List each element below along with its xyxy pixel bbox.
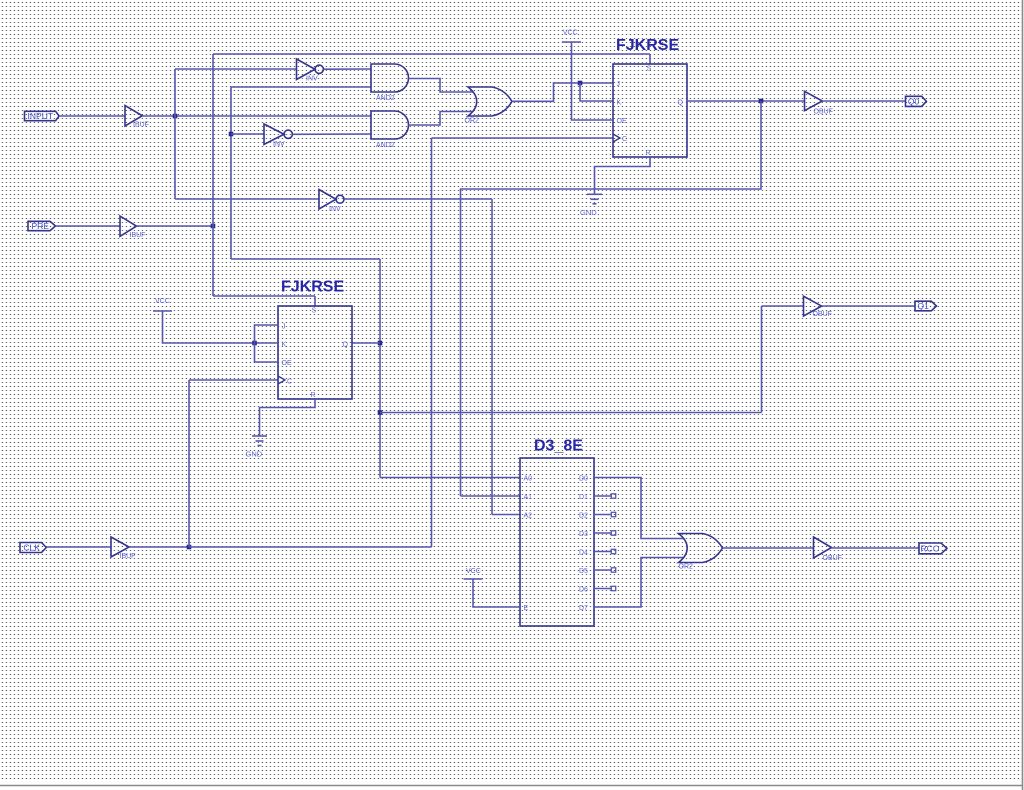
wire A1 input	[461, 495, 521, 497]
svg-text:INV: INV	[273, 141, 285, 148]
wire CLK to C2 pin	[189, 379, 278, 381]
node junction PRE net	[211, 224, 216, 229]
wire INV2 out to AND2 input	[293, 133, 371, 135]
wire PRE net to FJKRSE1 S	[213, 53, 650, 55]
svg-text:J: J	[617, 81, 621, 88]
svg-text:OE: OE	[282, 360, 292, 367]
svg-text:Q: Q	[343, 342, 349, 349]
window border bottom	[0, 785, 1022, 787]
wire INV3 net vertical x492	[491, 199, 493, 515]
pin stub D1 unconnected	[594, 495, 611, 497]
wire R2 to ground	[260, 399, 316, 436]
svg-text:CLK: CLK	[23, 543, 40, 553]
wire feedback vertical x231	[230, 87, 232, 259]
svg-text:FJKRSE: FJKRSE	[281, 278, 344, 295]
power VCC for FJKRSE2	[153, 310, 172, 312]
wire feedback to INV2 input	[231, 133, 264, 135]
wire INV3 out	[344, 198, 492, 200]
svg-text:R: R	[311, 392, 316, 399]
wire Q0 feedback	[461, 101, 762, 496]
input terminal CLK	[20, 543, 46, 553]
node junction CLK net	[187, 545, 192, 550]
svg-text:D6: D6	[579, 587, 588, 594]
svg-text:D2: D2	[579, 513, 588, 520]
wire OR1 out to J1/K1	[512, 83, 613, 101]
svg-text:INPUT: INPUT	[28, 111, 54, 121]
wire OBUF to Q1 terminal	[822, 305, 915, 307]
wire CLK vertical to FJKRSE1 C	[431, 138, 433, 547]
wire IBUF out to junction PRE	[137, 225, 214, 227]
wire INV1 out to AND1 input	[324, 68, 371, 70]
svg-text:D3: D3	[579, 531, 588, 538]
wire PRE to IBUF	[56, 225, 121, 227]
wire QT vertical to OBUF	[761, 306, 763, 413]
svg-text:D5: D5	[579, 568, 588, 575]
svg-text:OR2: OR2	[465, 117, 480, 124]
svg-text:D3_8E: D3_8E	[534, 438, 583, 455]
pin stub D3 unconnected	[594, 532, 611, 534]
svg-text:RCO: RCO	[921, 543, 940, 553]
svg-text:OBUF: OBUF	[823, 555, 842, 562]
pin stub D2 unconnected	[594, 514, 611, 516]
svg-text:GND: GND	[580, 208, 597, 217]
svg-text:Q: Q	[678, 100, 684, 107]
svg-text:K: K	[617, 100, 622, 107]
wire IBUF out to CLK junction	[129, 546, 189, 548]
svg-text:IBUF: IBUF	[130, 232, 146, 239]
wire R1 to ground	[595, 157, 651, 194]
svg-text:PRE: PRE	[32, 221, 50, 231]
node junction J2 K2 OE2	[252, 341, 257, 346]
wire AND1 out to OR	[409, 79, 474, 93]
wire feedback horizontal y259	[231, 258, 380, 260]
wire QT horizontal y412	[380, 412, 762, 414]
svg-text:A1: A1	[524, 494, 533, 501]
buffer OBUF (Q1)	[804, 296, 822, 316]
wire PRE net to FJKRSE2 S	[213, 295, 315, 297]
gate AND2 upper	[371, 64, 409, 92]
svg-text:D4: D4	[579, 550, 588, 557]
output terminal Q1	[915, 301, 937, 311]
node junction J1K1	[578, 81, 583, 86]
node junction INPUT net	[173, 114, 178, 119]
pin stub D6 unconnected	[594, 588, 611, 590]
svg-text:D1: D1	[579, 494, 588, 501]
svg-text:OR2: OR2	[679, 564, 694, 571]
gate AND2 lower	[371, 111, 409, 139]
ground GND for FJKRSE2	[252, 435, 267, 437]
ground GND for FJKRSE1	[587, 193, 602, 195]
wire QT to OBUF input	[762, 305, 804, 307]
svg-text:IBUF: IBUF	[133, 122, 149, 129]
wire Q1 out	[687, 100, 805, 102]
node junction feedback INV2	[229, 132, 234, 137]
wire VCC1 stem to OE1	[572, 42, 614, 120]
wire junction to AND2 upper input	[175, 115, 371, 117]
wire CLK to C1 pin	[432, 137, 614, 139]
svg-text:A0: A0	[524, 476, 533, 483]
input terminal PRE	[28, 221, 56, 230]
svg-text:S: S	[647, 66, 652, 73]
node junction Q2 out	[378, 341, 383, 346]
output terminal Q0	[906, 96, 927, 106]
svg-text:AND2: AND2	[376, 142, 395, 149]
svg-text:OBUF: OBUF	[814, 108, 833, 115]
pin stub D5 unconnected	[594, 569, 611, 571]
wire VCC3 stem to E	[473, 579, 520, 607]
svg-text:A2: A2	[524, 513, 533, 520]
svg-text:Q1: Q1	[917, 301, 929, 311]
wire CLK vertical to FJKRSE2 C	[188, 380, 190, 547]
wire to INV bottom input	[175, 198, 319, 200]
wire vertical PRE net x213	[212, 54, 214, 296]
svg-text:K: K	[282, 342, 287, 349]
buffer OBUF (Q0)	[805, 91, 823, 110]
input terminal INPUT	[25, 111, 60, 120]
svg-text:GND: GND	[246, 450, 263, 459]
svg-text:Q0: Q0	[908, 96, 920, 106]
wire A0 input	[380, 477, 520, 479]
inverter INV lower	[319, 190, 336, 210]
wire D7 to OR2	[594, 558, 684, 608]
wire OBUF to RCO terminal	[832, 547, 920, 549]
buffer IBUF (PRE)	[120, 216, 137, 236]
gate OR2 lower	[679, 534, 723, 563]
svg-text:IBUF: IBUF	[120, 553, 136, 560]
wire OBUF to Q0 terminal	[822, 100, 905, 102]
svg-text:C: C	[287, 379, 292, 386]
buffer OBUF (RCO)	[814, 537, 832, 558]
svg-text:AND2: AND2	[376, 95, 395, 102]
svg-text:VCC: VCC	[466, 568, 481, 575]
wire K1 branch	[580, 83, 613, 101]
svg-text:VCC: VCC	[563, 30, 578, 37]
svg-text:INV: INV	[306, 76, 318, 83]
wire AND2 out to OR	[409, 112, 474, 126]
svg-text:FJKRSE: FJKRSE	[616, 37, 679, 54]
wire A2 input	[492, 514, 520, 516]
node junction QT tap	[378, 410, 383, 415]
wire S1 stub	[649, 54, 651, 64]
svg-text:R: R	[646, 150, 651, 157]
wire S2 stub	[314, 296, 316, 306]
wire IBUF out to junction	[142, 115, 175, 117]
svg-text:INV: INV	[329, 206, 341, 213]
inverter INV middle	[264, 124, 284, 145]
wire Q2 to junction	[352, 342, 380, 344]
svg-text:E: E	[524, 605, 529, 612]
svg-text:J: J	[282, 324, 286, 331]
svg-text:VCC: VCC	[155, 298, 170, 305]
pin stub D4 unconnected	[594, 551, 611, 553]
svg-text:OE: OE	[617, 118, 627, 125]
power VCC for FJKRSE1	[562, 41, 581, 43]
svg-text:OBUF: OBUF	[813, 311, 832, 318]
output terminal RCO	[919, 543, 947, 554]
svg-text:S: S	[312, 308, 317, 315]
svg-text:D7: D7	[579, 605, 588, 612]
node junction Q0 feedback	[759, 99, 764, 104]
wire CLK to IBUF	[46, 546, 111, 548]
window border right	[1022, 0, 1024, 790]
wire feedback vertical x380	[379, 259, 381, 478]
decoder D3_8E U3	[520, 458, 594, 626]
flip-flop FJKRSE U2	[278, 306, 352, 399]
wire OR2 out to OBUF	[723, 547, 814, 549]
wire INPUT to IBUF	[59, 115, 125, 117]
inverter INV top	[297, 59, 316, 80]
wire to INV top input	[175, 68, 297, 70]
wire CLK junction to corner	[189, 546, 432, 548]
flip-flop FJKRSE U1	[613, 64, 687, 157]
wire VCC2 stem to K2	[163, 311, 279, 343]
wire J2 OE2 branch	[255, 325, 279, 362]
buffer IBUF (INPUT)	[125, 106, 142, 127]
wire vertical x175	[174, 69, 176, 199]
power VCC for D3_8E E pin	[464, 578, 483, 580]
svg-text:D0: D0	[579, 476, 588, 483]
gate OR2 upper	[468, 87, 512, 116]
buffer IBUF (CLK)	[111, 537, 129, 557]
wire feedback to AND2 top gate lower input	[231, 86, 371, 88]
svg-text:C: C	[622, 136, 627, 143]
wire D0 to OR2	[594, 478, 684, 539]
